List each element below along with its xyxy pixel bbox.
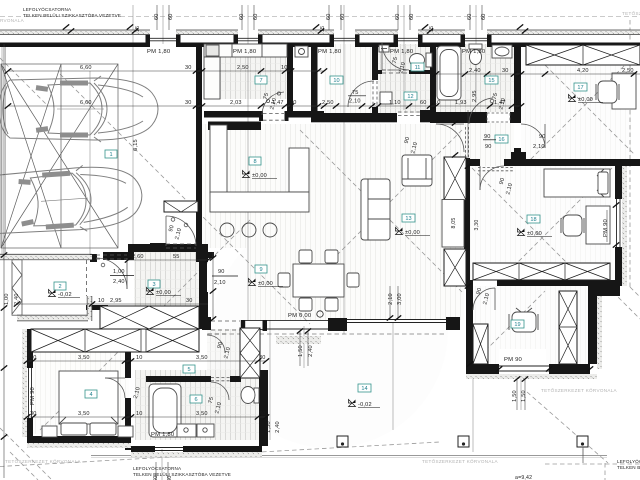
- closet corridor5: [240, 328, 260, 378]
- top wall inner black band segments: [0, 43, 150, 48]
- svg-text:2,10: 2,10: [349, 99, 361, 105]
- svg-text:10: 10: [333, 78, 339, 84]
- kitchen bottom wall lower leaf: [208, 122, 261, 131]
- washbasin room11: [379, 45, 389, 52]
- svg-text:60: 60: [168, 13, 174, 20]
- kitchen 7 floor: [220, 57, 287, 99]
- svg-text:60: 60: [481, 13, 487, 20]
- sofa living: [361, 179, 390, 240]
- chair room17: [596, 81, 619, 103]
- svg-text:3,50: 3,50: [78, 355, 90, 361]
- rotated door dims: [110, 56, 546, 433]
- door 16-18: [480, 166, 504, 190]
- svg-text:10: 10: [281, 65, 288, 71]
- bathtub room6: [149, 384, 181, 437]
- bath6 top wall: [146, 376, 211, 382]
- svg-text:6: 6: [194, 397, 197, 403]
- svg-text:90: 90: [218, 269, 225, 275]
- svg-text:30: 30: [186, 298, 193, 304]
- garage dim line lower: [8, 105, 196, 107]
- door hall-wing: [207, 335, 225, 353]
- living vertical dim: [467, 110, 469, 160]
- car 1 garage: [0, 76, 158, 142]
- car 2 garage: [0, 161, 144, 238]
- bedroom 4 floor: [33, 352, 129, 434]
- svg-text:±0,00: ±0,00: [527, 231, 542, 237]
- svg-text:±0,00: ±0,00: [578, 97, 593, 103]
- closet band wing lower: [31, 329, 199, 352]
- svg-text:60: 60: [420, 100, 427, 106]
- svg-text:2,40: 2,40: [275, 421, 281, 433]
- svg-text:LEFOLYÓCSATORNA: LEFOLYÓCSATORNA: [23, 6, 72, 12]
- room18 dim verticals: [606, 210, 608, 242]
- svg-text:PM 90: PM 90: [504, 357, 523, 363]
- top 60 axis pairs short lines: [156, 5, 158, 30]
- svg-text:2,40: 2,40: [113, 279, 125, 285]
- tv cabinet B living: [444, 249, 466, 286]
- svg-text:PM 1,80: PM 1,80: [318, 49, 342, 55]
- svg-text:a=9,42: a=9,42: [515, 475, 532, 480]
- bedroom 18 floor: [470, 166, 613, 280]
- door bath15: [469, 98, 492, 124]
- svg-text:3,30: 3,30: [474, 220, 480, 231]
- left edge dim line: [3, 44, 5, 478]
- garage right wall: [196, 44, 202, 262]
- window room18 east: [616, 199, 618, 247]
- room3 band connector: [86, 305, 108, 310]
- room19 right wall: [588, 296, 597, 364]
- bar stool 2: [242, 223, 256, 237]
- bath15 dim line: [436, 73, 521, 75]
- wall wc11|12: [372, 70, 382, 74]
- desk room17: [612, 73, 636, 109]
- svg-text:TELKEN BE: TELKEN BE: [617, 465, 640, 470]
- window wc top: [398, 37, 418, 39]
- roof hip diagonal through entry: [60, 74, 310, 324]
- svg-text:15: 15: [488, 78, 494, 84]
- svg-text:18: 18: [530, 217, 536, 223]
- svg-text:1: 1: [109, 152, 112, 158]
- svg-text:RVONALA: RVONALA: [0, 18, 25, 23]
- svg-text:2,03: 2,03: [230, 100, 242, 106]
- east wall 18: [615, 166, 622, 199]
- diagonals bedroom 18: [472, 168, 584, 280]
- wall 2|3 dashed upper: [86, 260, 88, 296]
- X-band right corner wall: [199, 292, 208, 329]
- living east wall: [464, 158, 470, 286]
- svg-text:3,50: 3,50: [78, 411, 90, 417]
- step wall 18/19: [588, 286, 620, 296]
- svg-text:15: 15: [429, 26, 435, 32]
- door room19: [473, 288, 495, 310]
- svg-text:-0,02: -0,02: [58, 292, 72, 298]
- svg-text:14: 14: [361, 386, 367, 392]
- corridor 5 floor: [207, 329, 258, 370]
- door garage-room3: [96, 258, 127, 289]
- svg-text:60: 60: [253, 13, 259, 20]
- svg-text:±0,00: ±0,00: [258, 281, 273, 287]
- svg-text:PM 1,80: PM 1,80: [390, 49, 414, 55]
- svg-text:1,50: 1,50: [298, 345, 304, 357]
- entry canopy: [164, 201, 198, 212]
- svg-text:PM 1,80: PM 1,80: [462, 49, 486, 55]
- svg-text:30: 30: [259, 411, 266, 417]
- svg-text:2,60: 2,60: [132, 254, 144, 260]
- room3 right wall lower: [199, 262, 207, 308]
- room19 left wall: [466, 286, 473, 364]
- bar stool 1: [220, 223, 234, 237]
- closet room19 right: [559, 291, 577, 364]
- hall9 south glazing: [245, 320, 263, 322]
- svg-text:2,10: 2,10: [388, 293, 394, 305]
- svg-text:LEFOLYÓCSATORNA: LEFOLYÓCSATORNA: [133, 465, 182, 471]
- top 60 rotated dim texts: [4, 13, 487, 480]
- diagonals bedroom 17: [524, 44, 634, 154]
- svg-text:16: 16: [498, 137, 504, 143]
- kitchen counter left column: [204, 57, 220, 99]
- bed room18: [544, 169, 610, 197]
- svg-text:4: 4: [89, 392, 92, 398]
- svg-text:2,50: 2,50: [237, 65, 249, 71]
- bath6 right wall: [259, 370, 268, 446]
- svg-text:10: 10: [434, 100, 441, 106]
- wall pier 16|17: [511, 152, 526, 159]
- svg-text:PM 1,80: PM 1,80: [151, 432, 175, 438]
- window room4 west: [28, 368, 30, 418]
- svg-text:30: 30: [30, 355, 37, 361]
- svg-text:TETŐSZERKEZET KÖRVONALA: TETŐSZERKEZET KÖRVONALA: [541, 387, 618, 393]
- svg-text:2,50: 2,50: [622, 68, 634, 74]
- toilet room15: [469, 44, 482, 65]
- terrace columns: [337, 436, 588, 463]
- svg-text:8,05: 8,05: [451, 218, 457, 229]
- svg-text:3: 3: [152, 282, 155, 288]
- wall 17|18: [470, 159, 480, 166]
- svg-text:2,40: 2,40: [14, 293, 20, 305]
- svg-text:2,40: 2,40: [308, 345, 314, 357]
- svg-text:4,20: 4,20: [577, 68, 589, 74]
- svg-text:TELKEN BELÜLI SZIKKASZTÓBA VEZ: TELKEN BELÜLI SZIKKASZTÓBA VEZETVE: [133, 471, 231, 477]
- roof line right vertical: [629, 20, 631, 287]
- washbasin room15: [492, 45, 512, 58]
- svg-text:PM 90: PM 90: [603, 218, 609, 237]
- closet band room17: [526, 45, 640, 65]
- room 10 floor: [324, 44, 372, 113]
- pantry wall left: [287, 44, 293, 117]
- room3 dim line: [128, 259, 208, 261]
- svg-text:10: 10: [136, 411, 143, 417]
- svg-text:30: 30: [185, 100, 192, 106]
- svg-text:3,00: 3,00: [397, 293, 403, 305]
- armchair living: [402, 155, 432, 186]
- kitchen-living floor: [202, 124, 464, 248]
- svg-text:3,50: 3,50: [196, 411, 208, 417]
- svg-text:60: 60: [326, 13, 332, 20]
- window room10 top: [334, 37, 355, 39]
- bar counter bottom: [210, 192, 309, 212]
- svg-text:1,93: 1,93: [455, 100, 467, 106]
- diagonals living: [300, 130, 462, 292]
- chair room18: [561, 215, 584, 236]
- svg-text:30: 30: [259, 355, 266, 361]
- terrace edge line: [91, 455, 607, 457]
- living south wall piers: [206, 317, 211, 330]
- svg-text:5: 5: [187, 367, 190, 373]
- toilet room6: [241, 387, 259, 404]
- kitchen fridge: [206, 45, 219, 56]
- svg-text:60: 60: [340, 13, 346, 20]
- wall 15|17 and 16|17: [514, 44, 521, 123]
- door hall9 south opening: [211, 321, 240, 330]
- wing dim chain upper: [27, 360, 266, 362]
- svg-text:12: 12: [407, 94, 413, 100]
- entry door: [166, 216, 196, 246]
- dining table: [293, 264, 344, 297]
- window room19 south: [499, 365, 549, 367]
- svg-text:1,00: 1,00: [113, 269, 125, 275]
- svg-text:3,50: 3,50: [196, 355, 208, 361]
- terrace pillar: [328, 318, 347, 331]
- faint watermark circle: [212, 212, 448, 448]
- svg-text:10: 10: [514, 100, 521, 106]
- kitchen bottom wall upper leaf: [204, 111, 261, 118]
- entry porch stub: [150, 243, 166, 252]
- rooms 10-12 bottom wall: [311, 113, 397, 122]
- closet band room18: [473, 263, 610, 280]
- pantry basin: [295, 46, 308, 57]
- top wall outer thin lines: [0, 30, 640, 35]
- svg-text:6,15: 6,15: [133, 139, 139, 151]
- vanity room6: [177, 424, 214, 437]
- desk room18: [586, 206, 610, 244]
- door corridor-bath6: [211, 382, 229, 400]
- svg-text:PM 90: PM 90: [30, 386, 36, 405]
- svg-text:2,40: 2,40: [469, 68, 481, 74]
- svg-text:8: 8: [253, 159, 256, 165]
- svg-text:30: 30: [30, 411, 37, 417]
- door living-16: [436, 124, 464, 152]
- svg-text:2,50: 2,50: [322, 100, 334, 106]
- svg-text:10: 10: [290, 100, 297, 106]
- level marks: [49, 95, 604, 409]
- door jamb garage-room3: [90, 254, 97, 262]
- svg-text:1,10: 1,10: [389, 100, 401, 106]
- roof ridge horizontal mid: [207, 333, 446, 335]
- svg-text:±0,00: ±0,00: [156, 290, 171, 296]
- svg-text:1,50: 1,50: [512, 390, 518, 402]
- svg-text:55: 55: [173, 254, 180, 260]
- wall room4|5: [125, 352, 131, 378]
- bar counter column left: [210, 125, 227, 193]
- svg-text:TETŐSZERKEZET KÖRVONALA: TETŐSZERKEZET KÖRVONALA: [5, 458, 82, 464]
- svg-text:TETŐSZERKEZET KÖRVONALA: TETŐSZERKEZET KÖRVONALA: [422, 458, 499, 464]
- wall 12|15: [430, 44, 436, 113]
- svg-text:2: 2: [58, 284, 61, 290]
- bathtub room15: [437, 46, 461, 100]
- svg-text:6,60: 6,60: [80, 65, 92, 71]
- svg-text:15: 15: [135, 26, 141, 32]
- svg-text:TELKEN BELÜLI SZIKKASZTÓBA VEZ: TELKEN BELÜLI SZIKKASZTÓBA VEZETVE: [23, 12, 121, 18]
- wall 10|11: [372, 44, 378, 80]
- door kitchen: [262, 92, 284, 115]
- window bath6 south: [155, 447, 183, 449]
- wing dim chain lower: [27, 416, 266, 418]
- svg-text:10: 10: [136, 355, 143, 361]
- svg-text:PM 1,80: PM 1,80: [233, 49, 257, 55]
- svg-text:19: 19: [514, 322, 520, 328]
- svg-text:PM 0,00: PM 0,00: [288, 313, 312, 319]
- svg-text:13: 13: [405, 216, 411, 222]
- svg-text:11: 11: [415, 65, 421, 71]
- tv cabinet A living: [444, 157, 466, 200]
- wing left wall: [27, 329, 33, 368]
- svg-text:2,10: 2,10: [214, 280, 226, 286]
- diagonal room 19: [480, 291, 545, 356]
- svg-text:90: 90: [485, 144, 492, 150]
- door wc11: [382, 43, 409, 70]
- svg-text:1,50: 1,50: [266, 421, 272, 433]
- svg-text:17: 17: [577, 85, 583, 91]
- room2 dim line: [17, 303, 208, 305]
- window piers: [146, 35, 151, 43]
- roof hip bottom-left: [0, 428, 52, 480]
- door living top opening: [398, 112, 420, 116]
- hall9 vertical dim: [212, 252, 214, 320]
- bath15 bottom wall: [430, 112, 487, 123]
- svg-text:LEFOLYÓC: LEFOLYÓC: [617, 458, 640, 464]
- closet room19 left: [473, 324, 488, 364]
- window garage top: [150, 37, 176, 39]
- svg-text:1,00: 1,00: [4, 293, 10, 305]
- dining chairs: [299, 250, 312, 263]
- room3 top wall: [128, 244, 208, 252]
- room2 left shaft with zigzag: [12, 260, 22, 316]
- room 3 floor: [134, 252, 201, 308]
- armchair room19: [509, 308, 538, 332]
- svg-text:90: 90: [484, 134, 491, 140]
- svg-text:±0,00: ±0,00: [252, 173, 267, 179]
- room18 bottom wall: [466, 280, 473, 286]
- svg-text:7: 7: [259, 78, 262, 84]
- svg-text:6,60: 6,60: [80, 100, 92, 106]
- hall 16 floor: [464, 123, 514, 166]
- svg-text:±0,00: ±0,00: [405, 230, 420, 236]
- svg-text:90: 90: [539, 134, 546, 140]
- property line top: [0, 16, 640, 18]
- svg-text:75: 75: [352, 90, 359, 96]
- bedroom 17 floor: [521, 44, 631, 159]
- svg-text:60: 60: [409, 13, 415, 20]
- svg-text:1,50: 1,50: [521, 390, 527, 402]
- bar stool 3: [263, 223, 277, 237]
- svg-text:15: 15: [320, 26, 326, 32]
- door room10: [348, 81, 374, 107]
- garage dim line upper: [8, 70, 196, 72]
- corridor5 left wall: [202, 319, 208, 330]
- svg-text:60: 60: [239, 13, 245, 20]
- svg-text:30: 30: [185, 65, 192, 71]
- bath 6 floor: [135, 370, 260, 440]
- kitchen counter top row: [204, 44, 287, 57]
- svg-text:60: 60: [395, 13, 401, 20]
- svg-text:2,95: 2,95: [472, 90, 478, 102]
- exterior hatch strips: [22, 329, 27, 437]
- door 16-17: [521, 124, 545, 148]
- bar counter column right: [289, 148, 309, 192]
- hall9 wall pieces: [200, 252, 214, 258]
- window kitchen top: [238, 37, 258, 39]
- svg-text:2,95: 2,95: [110, 298, 122, 304]
- svg-text:10: 10: [98, 298, 105, 304]
- svg-text:2,10: 2,10: [533, 144, 545, 150]
- svg-text:60: 60: [154, 13, 160, 20]
- hall16 dashed boundaries: [466, 127, 469, 157]
- top wall: hatch strip segments: [0, 30, 150, 34]
- bottom right dims: [299, 331, 301, 366]
- svg-text:TETŐSZ: TETŐSZ: [622, 10, 640, 16]
- window bath15 top: [465, 37, 487, 39]
- svg-text:60: 60: [467, 13, 473, 20]
- bath 15 floor: [436, 44, 514, 112]
- pantry wall right: [311, 44, 318, 112]
- svg-text:9: 9: [259, 267, 262, 273]
- living south glazing: [347, 319, 446, 321]
- tv sideboard living: [442, 200, 464, 248]
- room 19 floor: [473, 286, 588, 364]
- closet band room3 upper: [100, 306, 199, 329]
- garage demolition X: [1, 64, 118, 248]
- svg-text:-0,02: -0,02: [358, 402, 372, 408]
- room17 dim line: [521, 73, 640, 75]
- top rooms dim chain: [196, 105, 521, 107]
- room4 bottom wall: [27, 436, 131, 443]
- bath6 bottom wall: [131, 446, 155, 452]
- wc 11-12 floor: [378, 44, 430, 113]
- svg-text:PM 1,80: PM 1,80: [147, 49, 171, 55]
- diagonal bedroom wing: [40, 220, 250, 430]
- garage bottom wall hatched: [0, 254, 92, 321]
- svg-text:30: 30: [502, 68, 509, 74]
- door wc12 opening: [382, 69, 409, 71]
- toilet room11: [410, 53, 433, 67]
- roof edge bottom sloped: [0, 442, 440, 467]
- door room4: [105, 378, 125, 398]
- kitchen dim line: [196, 70, 324, 72]
- living SE corner: [446, 317, 460, 330]
- washer room12: [380, 92, 392, 104]
- bed room4: [42, 371, 133, 437]
- roof hip bottom-right: [527, 392, 608, 463]
- room19 bottom wall: [466, 364, 499, 374]
